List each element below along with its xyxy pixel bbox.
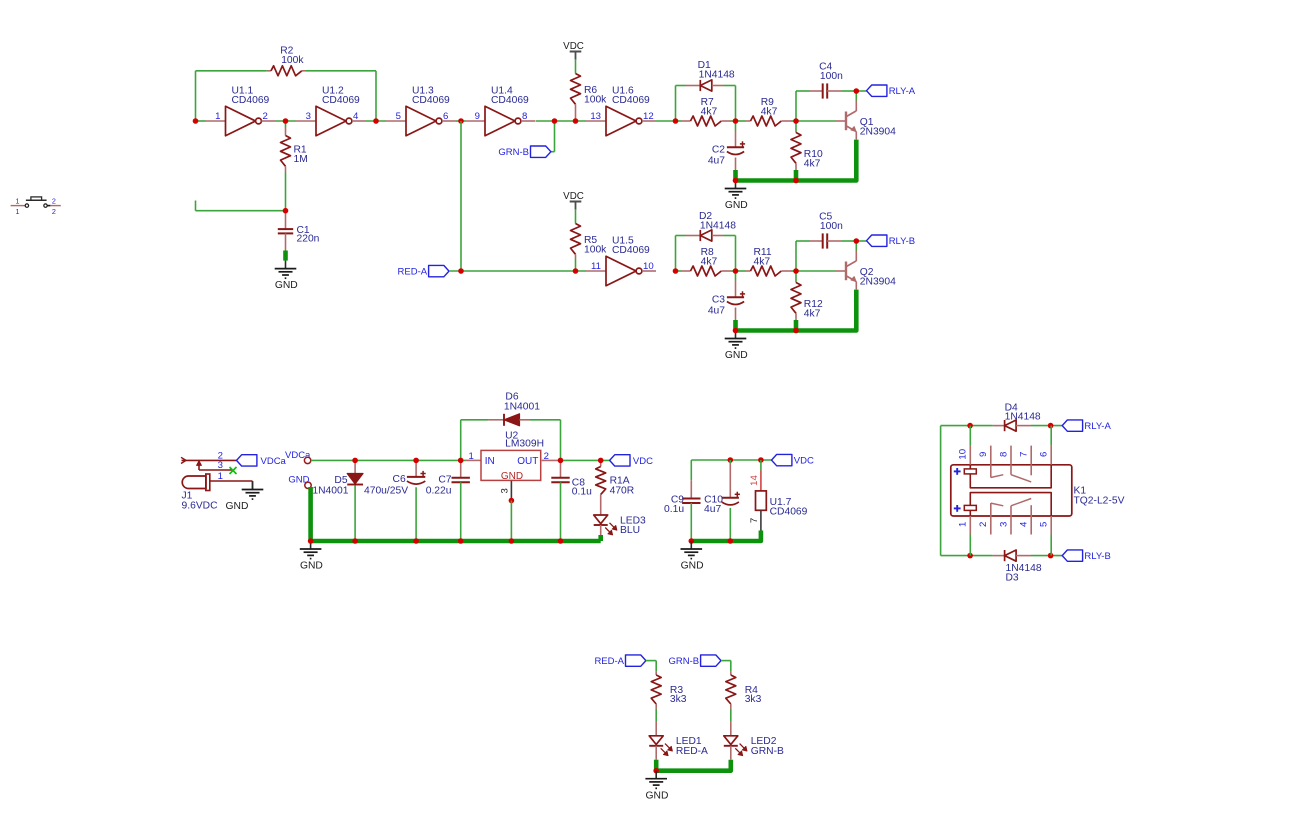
svg-text:GND: GND	[725, 350, 748, 361]
svg-text:GND: GND	[300, 561, 323, 572]
svg-text:0.1u: 0.1u	[572, 487, 592, 498]
svg-text:4u7: 4u7	[704, 504, 721, 515]
svg-text:100n: 100n	[820, 71, 843, 82]
svg-text:GND: GND	[681, 561, 704, 572]
svg-text:6: 6	[1039, 452, 1050, 457]
svg-text:0.1u: 0.1u	[664, 504, 684, 515]
svg-text:4k7: 4k7	[761, 107, 778, 118]
svg-text:1: 1	[16, 196, 20, 205]
svg-text:RED-A: RED-A	[398, 267, 428, 278]
svg-text:GRN-B: GRN-B	[498, 147, 529, 158]
svg-text:RED-A: RED-A	[594, 656, 624, 667]
svg-text:4u7: 4u7	[708, 305, 725, 316]
svg-text:VDC: VDC	[563, 41, 584, 52]
svg-text:2: 2	[263, 111, 268, 122]
svg-text:14: 14	[749, 475, 760, 486]
svg-text:RLY-A: RLY-A	[889, 86, 916, 97]
svg-text:3: 3	[306, 111, 311, 122]
svg-text:1N4001: 1N4001	[504, 401, 540, 412]
svg-text:CD4069: CD4069	[770, 506, 808, 517]
svg-text:7: 7	[1019, 452, 1030, 457]
svg-text:BLU: BLU	[620, 525, 640, 536]
svg-text:CD4069: CD4069	[412, 95, 450, 106]
svg-text:3: 3	[218, 460, 223, 471]
svg-text:4: 4	[1019, 521, 1030, 527]
svg-text:GND: GND	[725, 200, 748, 211]
svg-text:4k7: 4k7	[701, 107, 718, 118]
svg-text:100k: 100k	[584, 245, 607, 256]
svg-text:CD4069: CD4069	[612, 95, 650, 106]
svg-text:1N4148: 1N4148	[699, 69, 735, 80]
svg-text:10: 10	[958, 449, 969, 460]
svg-text:GRN-B: GRN-B	[668, 656, 699, 667]
svg-text:TQ2-L2-5V: TQ2-L2-5V	[1074, 495, 1125, 506]
svg-text:6: 6	[443, 111, 448, 122]
svg-text:CD4069: CD4069	[491, 95, 529, 106]
svg-text:RLY-B: RLY-B	[1084, 551, 1110, 562]
svg-text:1: 1	[469, 451, 474, 462]
svg-text:12: 12	[643, 111, 654, 122]
svg-text:RLY-B: RLY-B	[889, 236, 915, 247]
svg-text:1N4148: 1N4148	[1005, 412, 1041, 423]
svg-text:IN: IN	[485, 456, 495, 467]
svg-text:5: 5	[396, 111, 401, 122]
svg-text:1N4148: 1N4148	[700, 220, 736, 231]
svg-text:470u/25V: 470u/25V	[364, 486, 408, 497]
svg-text:OUT: OUT	[517, 456, 538, 467]
svg-text:2: 2	[52, 207, 56, 216]
svg-text:13: 13	[590, 111, 601, 122]
svg-text:8: 8	[998, 452, 1009, 457]
svg-text:RLY-A: RLY-A	[1084, 421, 1111, 432]
svg-text:4k7: 4k7	[804, 309, 821, 320]
svg-text:1: 1	[215, 111, 220, 122]
svg-text:220n: 220n	[297, 234, 320, 245]
svg-text:11: 11	[591, 261, 601, 272]
svg-text:100n: 100n	[820, 221, 843, 232]
svg-text:VDC: VDC	[563, 191, 584, 202]
svg-text:GND: GND	[275, 280, 298, 291]
svg-text:2N3904: 2N3904	[860, 276, 896, 287]
svg-text:4k7: 4k7	[701, 257, 718, 268]
svg-text:100k: 100k	[584, 95, 607, 106]
svg-text:3k3: 3k3	[745, 694, 762, 705]
svg-text:D5: D5	[334, 475, 347, 486]
svg-text:C3: C3	[712, 295, 725, 306]
svg-text:CD4069: CD4069	[232, 95, 270, 106]
svg-text:9: 9	[475, 111, 480, 122]
svg-text:9.6VDC: 9.6VDC	[182, 501, 219, 512]
svg-text:470R: 470R	[610, 485, 635, 496]
svg-text:2N3904: 2N3904	[860, 126, 896, 137]
svg-text:3: 3	[500, 488, 511, 493]
svg-text:VDCa: VDCa	[261, 456, 287, 467]
svg-text:GRN-B: GRN-B	[751, 746, 784, 757]
svg-text:C6: C6	[393, 474, 406, 485]
svg-text:4k7: 4k7	[804, 159, 821, 170]
svg-text:LM309H: LM309H	[505, 438, 544, 449]
svg-text:100k: 100k	[281, 55, 304, 66]
svg-text:VDC: VDC	[794, 456, 814, 467]
svg-text:VDC: VDC	[633, 456, 653, 467]
svg-text:4k7: 4k7	[754, 257, 771, 268]
svg-text:2: 2	[544, 451, 549, 462]
svg-text:2: 2	[978, 522, 989, 527]
svg-text:7: 7	[749, 518, 760, 523]
svg-text:GND: GND	[288, 475, 309, 486]
svg-text:CD4069: CD4069	[322, 95, 360, 106]
svg-text:1: 1	[218, 471, 223, 482]
svg-text:1: 1	[16, 207, 20, 216]
svg-text:8: 8	[522, 111, 527, 122]
svg-text:5: 5	[1039, 522, 1050, 527]
svg-text:GND: GND	[646, 790, 669, 801]
svg-text:CD4069: CD4069	[612, 245, 650, 256]
svg-text:C7: C7	[438, 475, 451, 486]
svg-text:3: 3	[998, 522, 1009, 527]
svg-text:0.22u: 0.22u	[426, 486, 452, 497]
svg-text:1N4001: 1N4001	[312, 486, 348, 497]
svg-text:1: 1	[958, 522, 969, 527]
svg-text:VDCa: VDCa	[285, 450, 311, 461]
svg-text:10: 10	[643, 261, 654, 272]
svg-text:4u7: 4u7	[708, 155, 725, 166]
svg-text:9: 9	[978, 452, 989, 457]
svg-text:3k3: 3k3	[670, 694, 687, 705]
svg-text:4: 4	[353, 111, 359, 122]
svg-text:1M: 1M	[294, 154, 308, 165]
svg-text:2: 2	[52, 196, 56, 205]
svg-text:GND: GND	[226, 501, 249, 512]
svg-text:D3: D3	[1006, 572, 1019, 583]
svg-text:GND: GND	[501, 471, 523, 482]
svg-text:RED-A: RED-A	[676, 746, 708, 757]
svg-text:C2: C2	[712, 145, 725, 156]
